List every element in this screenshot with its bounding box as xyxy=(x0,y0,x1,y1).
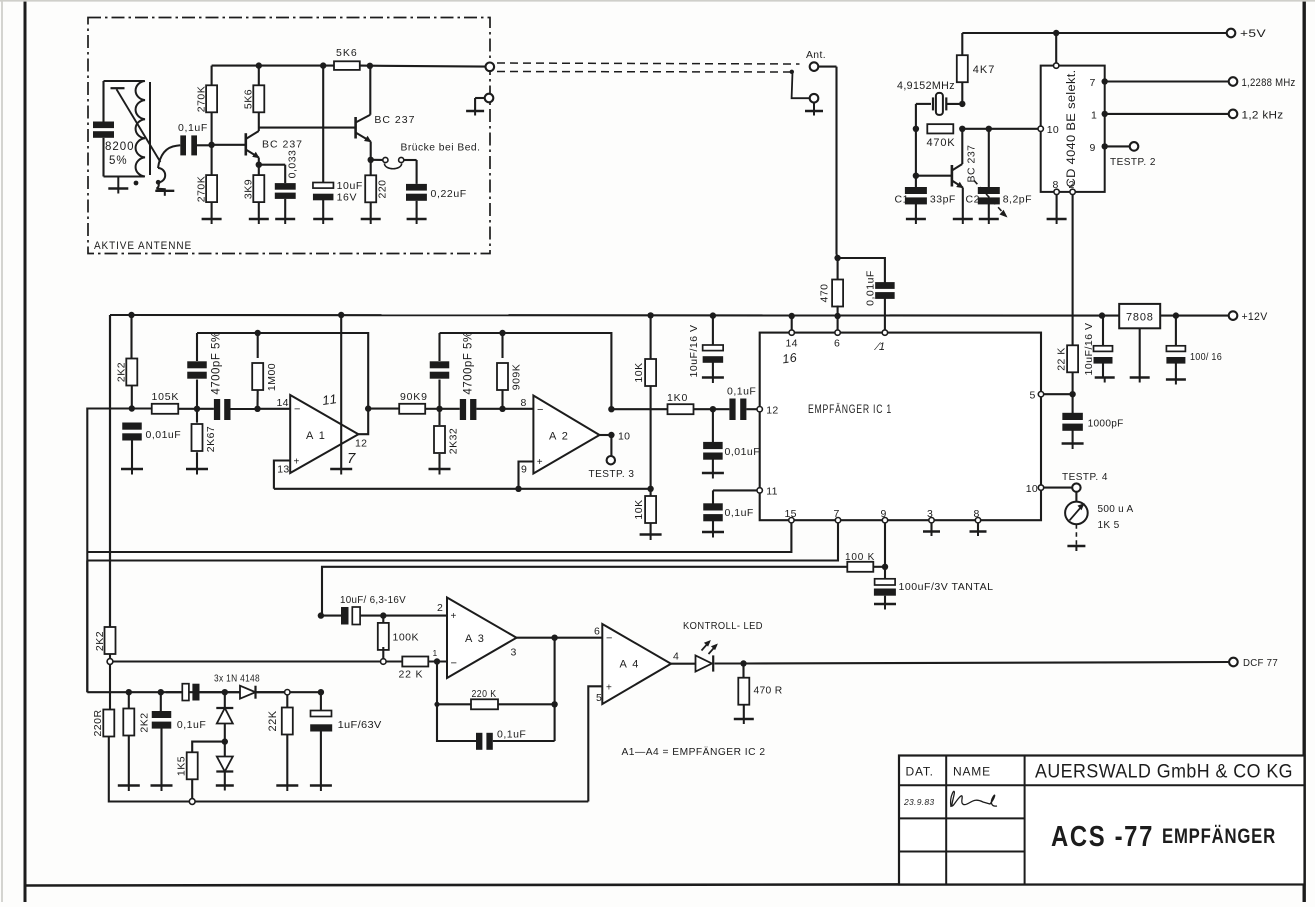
capacitor C1 33pF xyxy=(905,187,927,194)
wire emitter to 0,033 xyxy=(259,164,285,166)
node base Q1 xyxy=(208,142,214,148)
pin 14 top xyxy=(789,330,794,335)
svg-text:2: 2 xyxy=(1069,179,1075,191)
pin 6 top xyxy=(835,330,840,335)
svg-text:1: 1 xyxy=(1091,109,1097,121)
node 470K right xyxy=(959,126,965,132)
svg-text:16V: 16V xyxy=(337,192,357,204)
IC EMPFAENGER IC 1 xyxy=(760,333,1041,521)
svg-text:100uF/3V TANTAL: 100uF/3V TANTAL xyxy=(899,581,994,593)
svg-text:AKTIVE ANTENNE: AKTIVE ANTENNE xyxy=(94,240,192,252)
svg-text:TESTP. 4: TESTP. 4 xyxy=(1062,471,1108,483)
winding polarity dot xyxy=(156,180,161,185)
pin 9 TESTP 2 xyxy=(1102,143,1108,149)
ground xyxy=(186,468,208,470)
svg-text:4K7: 4K7 xyxy=(973,64,996,76)
svg-text:1K5: 1K5 xyxy=(176,756,188,776)
pin 2 output xyxy=(1070,189,1075,194)
border frame right xyxy=(1303,0,1306,902)
ground (Q3 emitter) xyxy=(953,218,973,220)
svg-text:1K0: 1K0 xyxy=(667,392,688,404)
resistor 22K (AGC) xyxy=(286,695,288,708)
svg-text:10: 10 xyxy=(1026,483,1038,495)
node Q2 collector xyxy=(367,63,373,69)
svg-text:+: + xyxy=(451,611,457,622)
feedback line stage2 xyxy=(440,333,612,409)
svg-text:14: 14 xyxy=(277,397,289,409)
terminal TESTP 2 xyxy=(1130,142,1139,151)
svg-text:15: 15 xyxy=(785,508,797,520)
svg-text:10K: 10K xyxy=(633,499,645,519)
resistor 2K2 (bus) xyxy=(105,627,116,654)
node crystal right xyxy=(959,101,965,107)
node rail pin14 xyxy=(789,313,795,319)
node B (2K32/4700pF) xyxy=(436,406,442,412)
pin 15 bottom xyxy=(789,518,794,523)
wire tank top xyxy=(104,80,145,82)
pin 7 out 1,2288MHz xyxy=(1102,78,1108,84)
transistor Q1 BC 237 xyxy=(245,133,248,155)
svg-text:1,2288 MHz: 1,2288 MHz xyxy=(1242,77,1296,89)
resistor 2K2 input divider xyxy=(130,315,132,359)
svg-text:1,2 kHz: 1,2 kHz xyxy=(1242,109,1284,121)
ground (divider) xyxy=(640,533,662,535)
svg-text:220: 220 xyxy=(377,179,389,198)
capacitor 1uF/63V xyxy=(320,692,322,710)
signal line to A3 inverting xyxy=(113,660,402,662)
wire to 909K node xyxy=(476,408,502,410)
wire left rail down to base xyxy=(915,129,917,191)
svg-text:2K67: 2K67 xyxy=(205,426,217,453)
resistor 5K6 (Q1 collector) xyxy=(253,85,264,112)
resistor 1M00 xyxy=(257,333,259,358)
ground xyxy=(1166,378,1186,380)
svg-text:+5V: +5V xyxy=(1240,28,1266,40)
wire base Q1 xyxy=(212,144,246,146)
svg-text:22 K: 22 K xyxy=(399,669,424,681)
node LED 470R xyxy=(740,660,746,666)
terminal TESTP 4 xyxy=(1044,487,1073,489)
svg-text:10uF/16 V: 10uF/16 V xyxy=(688,325,700,378)
ground (pin 3) xyxy=(923,530,940,532)
aktive antenne enclosure (dash-dot box) xyxy=(88,18,490,254)
svg-text:+: + xyxy=(606,683,612,694)
node rail 5K6v xyxy=(256,62,262,68)
capacitor 4700pF 5% stage1 xyxy=(196,333,198,361)
title block columns xyxy=(945,756,947,885)
resistor 470 R xyxy=(742,664,744,678)
svg-text:3K9: 3K9 xyxy=(243,179,255,199)
capacitor 0,1uF coupling xyxy=(180,135,186,155)
inductor L1 primary winding xyxy=(136,81,145,177)
resistor 100K (pin9) xyxy=(873,566,885,568)
resistor divider 10K upper xyxy=(650,315,652,359)
resistor divider 10K lower xyxy=(650,489,652,497)
wire 270K to rail xyxy=(211,66,213,86)
svg-text:4700pF 5%: 4700pF 5% xyxy=(211,331,223,394)
svg-text:22K: 22K xyxy=(267,710,279,731)
svg-text:1M00: 1M00 xyxy=(266,363,278,391)
ground (A1) xyxy=(330,468,352,470)
svg-text:5K6: 5K6 xyxy=(336,47,358,59)
svg-text:7: 7 xyxy=(834,508,840,520)
capacitor 1000pF xyxy=(1072,394,1074,415)
svg-text:2K32: 2K32 xyxy=(448,428,460,455)
pin 8 ground xyxy=(1054,189,1059,194)
resistor 470K xyxy=(927,124,953,133)
A1 plus input notch xyxy=(274,461,290,489)
svg-text:5K6: 5K6 xyxy=(243,89,255,109)
svg-text:0,01uF: 0,01uF xyxy=(146,429,182,441)
ground xyxy=(275,218,295,220)
svg-text:C1: C1 xyxy=(895,194,909,206)
capacitor 10uF/16V rail decoupling xyxy=(712,316,714,346)
svg-text:8: 8 xyxy=(974,508,980,520)
resistor 22K series A3 xyxy=(402,657,428,667)
resistor 3K9 xyxy=(258,165,260,176)
wire pin9 down xyxy=(884,523,886,579)
node 220K out xyxy=(551,701,557,707)
svg-text:100 K: 100 K xyxy=(845,552,875,563)
left bus vertical xyxy=(109,315,111,627)
capacitor 0,22uF xyxy=(406,184,427,191)
op-amp A3 xyxy=(447,598,517,679)
regulator 7808 xyxy=(1119,304,1160,328)
wire A1 out to 90K9 xyxy=(368,408,399,410)
node 22K AGC top xyxy=(285,690,290,695)
svg-text:TESTP. 3: TESTP. 3 xyxy=(589,468,635,480)
LED arrows xyxy=(702,642,710,651)
wire base Q3 xyxy=(916,175,952,177)
svg-text:220 K: 220 K xyxy=(472,688,497,700)
svg-text:470 R: 470 R xyxy=(754,685,783,697)
svg-text:NAME: NAME xyxy=(953,765,991,779)
wire 270K lower to ground xyxy=(211,202,213,219)
svg-text:A 4: A 4 xyxy=(620,659,640,671)
pin 8 bottom xyxy=(975,518,980,523)
trimmer arrow across C2 xyxy=(974,181,1006,217)
wire to DCF77 terminal xyxy=(744,662,1230,664)
line pin7 bus down xyxy=(86,561,88,693)
IC CD 4040 BE selekt. xyxy=(1041,66,1105,192)
node 100K bottom xyxy=(381,659,387,665)
tuning arrow xyxy=(117,89,161,162)
node Q2 emitter xyxy=(368,157,374,163)
node pin5 xyxy=(1069,391,1075,397)
svg-text:CD 4040 BE selekt.: CD 4040 BE selekt. xyxy=(1066,70,1078,188)
svg-text:BC 237: BC 237 xyxy=(262,139,303,151)
inductor L1 secondary winding xyxy=(156,168,165,189)
svg-text:0,22uF: 0,22uF xyxy=(431,188,467,200)
pin 10 (osc in) xyxy=(1038,126,1043,131)
wire to A3 plus xyxy=(383,615,447,617)
signature xyxy=(951,791,997,807)
meter 500uA 1K5 xyxy=(1065,502,1088,525)
svg-text:1K 5: 1K 5 xyxy=(1098,519,1120,531)
wire Ant to receiver xyxy=(818,66,836,68)
svg-text:5: 5 xyxy=(1030,390,1036,402)
node base Q3 xyxy=(913,173,919,179)
svg-text:A 2: A 2 xyxy=(549,431,569,443)
feedback cap branch xyxy=(437,704,476,741)
ground xyxy=(429,468,451,470)
svg-text:BC 237: BC 237 xyxy=(374,114,415,126)
capacitor 8200 5% (tank) xyxy=(102,81,104,122)
resistor 270K lower xyxy=(206,175,217,202)
svg-text:16: 16 xyxy=(781,350,798,366)
node C2 top xyxy=(986,126,992,132)
terminal TESTP 3 xyxy=(610,435,612,456)
svg-text:A1—A4 = EMPFÄNGER IC 2: A1—A4 = EMPFÄNGER IC 2 xyxy=(622,746,766,758)
svg-text:8: 8 xyxy=(521,397,527,409)
terminal 1,2288 MHz xyxy=(1229,77,1238,86)
wire 4K7 to collector node xyxy=(961,82,963,104)
ground (pin 8) xyxy=(1047,218,1067,220)
svg-text:C2: C2 xyxy=(966,194,980,206)
svg-text:1000pF: 1000pF xyxy=(1088,418,1124,430)
node Q1 emitter xyxy=(256,162,262,168)
pin 3 bottom xyxy=(929,518,934,523)
ground xyxy=(216,784,234,786)
svg-text:−: − xyxy=(451,658,458,670)
capacitor 0,033 xyxy=(275,183,296,190)
wire 220R to bottom rail xyxy=(109,737,589,802)
resistor 2K67 xyxy=(196,409,198,423)
node 100/16 xyxy=(1173,312,1179,318)
wire 4K7 top xyxy=(961,33,963,55)
svg-text:−: − xyxy=(294,404,301,416)
ground xyxy=(151,784,173,786)
node 2K2b xyxy=(126,689,132,695)
node rail A1 gnd xyxy=(338,312,344,318)
wire 5K6 to output terminal xyxy=(360,66,486,67)
A1 output elbow xyxy=(358,409,368,435)
resistor 470 (Ant input) xyxy=(834,255,840,261)
svg-text:8,2pF: 8,2pF xyxy=(1003,194,1032,206)
terminal 1,2 kHz xyxy=(1229,110,1238,119)
svg-text:7: 7 xyxy=(347,450,356,467)
wire 7808 gnd xyxy=(1139,328,1141,377)
node A3 feedback xyxy=(434,658,440,664)
node input RC xyxy=(129,405,135,411)
svg-text:10uF: 10uF xyxy=(337,180,363,192)
dashed cable wire lower xyxy=(497,71,793,74)
resistor 220 (Q2 emitter) xyxy=(370,160,372,176)
svg-text:470K: 470K xyxy=(927,137,956,149)
border frame left xyxy=(24,0,27,902)
resistor 1K0 xyxy=(668,404,694,414)
svg-text:23.9.83: 23.9.83 xyxy=(903,797,934,807)
transistor Q2 BC 237 xyxy=(354,117,357,139)
svg-text:1: 1 xyxy=(433,648,438,658)
node rail 10K xyxy=(647,312,653,318)
wire cap to pin 1 xyxy=(884,298,886,330)
svg-text:EMPFÄNGER: EMPFÄNGER xyxy=(1162,825,1276,848)
svg-text:270K: 270K xyxy=(196,86,208,113)
svg-text:0,1uF: 0,1uF xyxy=(497,729,526,741)
svg-text:4: 4 xyxy=(673,651,679,663)
ground xyxy=(1062,442,1084,444)
node rail 10uF mid xyxy=(710,312,716,318)
resistor 100K (A3) xyxy=(382,616,384,626)
border frame bottom xyxy=(24,884,1304,886)
ground (pin 8) xyxy=(970,530,987,532)
feedback 220K xyxy=(436,662,438,705)
transistor Q3 BC 237 (oscillator) xyxy=(951,165,954,187)
node rail 10uF xyxy=(320,62,326,68)
wire osc output to CD4040 pin10 xyxy=(962,128,1038,130)
scan edge lines xyxy=(1,0,3,902)
node +5V xyxy=(1053,30,1059,36)
terminal +12V xyxy=(1229,311,1238,320)
wire 5K6 to rail xyxy=(258,66,260,86)
svg-text:2K2: 2K2 xyxy=(139,712,151,732)
capacitor series 0,1uF pin12 xyxy=(729,399,735,421)
capacitor 0,01uF (Ant) xyxy=(875,282,895,289)
svg-text:10: 10 xyxy=(618,431,630,443)
node A2 output xyxy=(608,432,614,438)
svg-text:4,9152MHz: 4,9152MHz xyxy=(897,80,955,92)
svg-text:470: 470 xyxy=(819,283,831,302)
svg-text:0,033: 0,033 xyxy=(287,150,299,179)
wire terminal2 to ground xyxy=(475,97,485,99)
node 10K divider mid xyxy=(647,486,653,492)
A2 output elbow xyxy=(600,434,612,436)
svg-text:8: 8 xyxy=(1053,179,1059,191)
ground (secondary) xyxy=(156,189,164,191)
diode D3 clamp lower (cathode down) xyxy=(224,742,226,757)
node rail 10uF right xyxy=(1099,312,1105,318)
winding polarity dot xyxy=(134,181,139,186)
svg-text:TESTP. 2: TESTP. 2 xyxy=(1110,156,1156,168)
svg-text:AUERSWALD GmbH & CO KG: AUERSWALD GmbH & CO KG xyxy=(1035,761,1293,783)
svg-text:+: + xyxy=(537,457,543,468)
op-amp A1 xyxy=(290,395,358,473)
svg-text:11: 11 xyxy=(766,486,778,498)
wire base node up xyxy=(211,112,213,145)
resistor 270K upper xyxy=(206,85,217,112)
+5V rail xyxy=(962,32,1227,34)
pin 1 out 1,2kHz xyxy=(1102,111,1108,117)
ground xyxy=(702,472,724,474)
terminal 1K5 bottom xyxy=(189,799,195,805)
terminal DCF 77 xyxy=(1229,658,1238,667)
svg-text:11: 11 xyxy=(321,391,338,408)
pin 9 bottom xyxy=(882,518,887,523)
resistor 220R xyxy=(103,710,114,737)
A2 plus input notch xyxy=(519,462,534,489)
pin 5 right xyxy=(1038,392,1043,397)
svg-text:100K: 100K xyxy=(393,632,420,644)
node feedback 909K top xyxy=(499,330,505,336)
wire pin2 down to 22K xyxy=(1072,195,1074,346)
resistor 4K7 xyxy=(957,55,968,82)
capacitor series 0,1uF-class stage1 xyxy=(197,408,214,410)
wire 7808 out xyxy=(1160,315,1229,317)
capacitor 10uF/6,3-16V series xyxy=(341,607,349,625)
svg-text:7808: 7808 xyxy=(1126,312,1154,324)
capacitor 100/16 xyxy=(1175,316,1177,347)
capacitor 10uF/16V (7808 in) xyxy=(1102,316,1104,347)
ground xyxy=(702,531,724,533)
node 0,1uF AGC xyxy=(158,689,164,695)
wire node to A2 pin 8 xyxy=(503,408,534,410)
ground (Ant) xyxy=(813,103,815,112)
terminal Ant. xyxy=(810,62,819,71)
wire pin15 to left bus xyxy=(87,523,791,552)
supply ground through A1 xyxy=(340,315,342,469)
svg-text:10K: 10K xyxy=(633,362,645,382)
A4 plus wire down xyxy=(588,686,602,801)
wire 22K to A3 minus xyxy=(428,660,447,662)
svg-text:14: 14 xyxy=(786,338,798,350)
svg-text:9: 9 xyxy=(521,464,527,476)
capacitor C2 8,2pF xyxy=(988,129,990,190)
svg-text:A 3: A 3 xyxy=(465,633,485,645)
node A2 out top xyxy=(608,406,614,412)
svg-text:22 K: 22 K xyxy=(1056,347,1068,371)
wire A4 out to LED xyxy=(671,663,696,665)
ground xyxy=(202,218,222,220)
diode D1 series xyxy=(225,691,240,693)
capacitor 0,1uF pin11 xyxy=(713,489,757,491)
op-amp A2 xyxy=(533,396,599,474)
wire A3 out to A4 xyxy=(517,637,603,639)
node pin9 100K xyxy=(882,564,888,570)
resistor 909K xyxy=(501,333,503,358)
svg-text:5: 5 xyxy=(596,692,602,704)
pin 11 xyxy=(757,488,762,493)
ground xyxy=(313,218,333,220)
node AGC vertical mid xyxy=(318,612,324,618)
ground xyxy=(874,603,896,605)
pin 1 top (unlabelled) xyxy=(882,330,887,335)
ground xyxy=(276,784,298,786)
wire node to A1 pin 14 xyxy=(258,408,290,410)
svg-text:0,01uF: 0,01uF xyxy=(725,446,761,458)
terminal antenna output xyxy=(486,63,495,72)
svg-text:KONTROLL- LED: KONTROLL- LED xyxy=(683,620,763,632)
resistor 22K (pin5) xyxy=(1067,345,1078,372)
svg-text:12: 12 xyxy=(355,438,367,450)
svg-text:DAT.: DAT. xyxy=(906,765,934,779)
resistor 1K5 (clamp bias) xyxy=(192,742,225,753)
svg-text:DCF 77: DCF 77 xyxy=(1243,657,1278,669)
ground xyxy=(249,218,269,220)
ground xyxy=(702,376,724,378)
svg-text:−: − xyxy=(606,633,613,645)
wire base node down xyxy=(211,145,213,176)
svg-text:1uF/63V: 1uF/63V xyxy=(338,719,382,731)
wire Q1 collector to Q2 base xyxy=(259,127,356,129)
resistor 5K6 horizontal xyxy=(334,61,360,70)
capacitor 10uF/16V xyxy=(322,66,324,183)
ground xyxy=(118,784,140,786)
svg-text:Brücke bei Bed.: Brücke bei Bed. xyxy=(401,142,481,154)
ground (470R) xyxy=(734,718,754,720)
svg-text:90K9: 90K9 xyxy=(400,391,428,403)
terminal cable ground side xyxy=(810,94,819,103)
svg-text:500 u A: 500 u A xyxy=(1098,503,1134,515)
node 470K left xyxy=(913,126,919,132)
svg-text:33pF: 33pF xyxy=(930,194,956,206)
ground xyxy=(1095,376,1115,378)
svg-text:−: − xyxy=(537,404,544,416)
svg-text:270K: 270K xyxy=(196,176,208,203)
ground (tank) xyxy=(117,177,119,189)
pin 10 right xyxy=(1038,485,1043,490)
svg-text:EMPFÄNGER IC 1: EMPFÄNGER IC 1 xyxy=(808,404,892,416)
